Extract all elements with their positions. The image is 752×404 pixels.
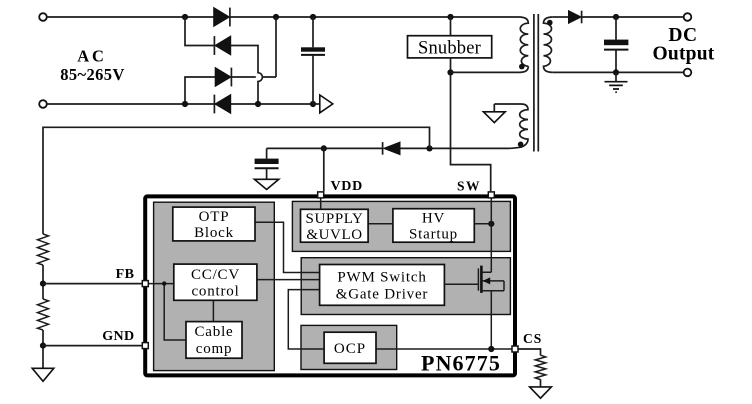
svg-text:85~265V: 85~265V [60,65,125,84]
svg-text:AC: AC [77,47,106,66]
pin SW [488,192,494,198]
resistor R1 [38,234,49,265]
wire vdd pin to supply [320,198,322,209]
svg-text:FB: FB [116,267,135,282]
block left gray [154,202,275,370]
wire bridge left upper vertical [185,17,214,46]
wire FB [43,283,142,285]
chip PN6775 outline [145,196,515,375]
junction primary bottom [447,69,453,75]
junction top bulk cap [310,14,316,20]
arrow DC- bus marker [313,95,333,113]
polarity dot secondary [547,20,553,26]
wire FB branch to cable comp [164,284,186,340]
wire primary bottom [451,66,529,72]
box PWM Switch Gate Driver [320,265,445,306]
pin CS [512,346,518,352]
diode D4 bridge bottom [214,95,230,114]
diode D2 bridge [214,36,230,55]
svg-text:PWM Switch: PWM Switch [337,270,426,286]
transistor Q1 power mosfet [444,266,504,293]
terminal AC line 1 [39,13,47,21]
terminal AC line 2 [39,100,47,108]
transformer primary winding [519,17,528,66]
wire R1 to R2 [42,265,44,299]
svg-text:Output: Output [653,44,715,65]
box Cable comp [186,322,242,359]
svg-text:VDD: VDD [331,179,363,194]
capacitor C3 vdd [255,148,279,179]
junction output cap bottom [613,69,619,75]
junction hv sw [488,221,494,227]
transformer secondary winding [544,17,553,72]
svg-text:HV: HV [422,211,445,227]
junction output cap top [613,14,619,20]
svg-text:OTP: OTP [199,209,230,225]
svg-text:SW: SW [457,179,481,194]
terminal DC out plus [684,13,692,21]
wire secondary bottom / output minus [553,71,685,73]
svg-text:comp: comp [196,341,233,357]
diode D1 bridge top [214,8,230,27]
junction top snubber [447,14,453,20]
diode D6 output [569,11,582,24]
snubber box [408,36,492,58]
wire PWM to OCP [288,290,324,349]
junction bottom bulk cap [310,101,316,107]
wire R2 to ground [42,330,44,368]
polarity dot aux [518,142,524,148]
wire aux bottom [401,147,509,149]
arrow primary ground marker aux [483,104,505,123]
diode D5 vdd [383,142,400,155]
transformer core [534,14,538,152]
junction GND [40,343,46,349]
diode D3 bridge [215,68,231,87]
junction vdd pin [321,145,327,151]
ground cs [530,387,552,398]
junction top D3 feed [273,14,279,20]
wire R3 to ground [540,379,542,387]
earth ground output [605,72,628,92]
box OCP [324,332,376,363]
box CC/CV control [174,264,257,300]
wire GND [43,345,142,347]
wire hv to sw line [474,223,491,225]
wire feedback sense [43,127,430,234]
wire vdd pin drop [323,148,325,191]
svg-text:PN6775: PN6775 [421,351,501,376]
wire D2 to DC- with hop over D3 wire [231,46,263,105]
wire AC bottom rail [47,103,313,105]
junction FB [40,281,46,287]
svg-text:&UVLO: &UVLO [306,227,362,243]
block middle gray [301,258,510,315]
wire D3 to top rail [231,17,276,77]
junction aux / divider [426,145,432,151]
wire OTP to PWM [255,222,320,272]
wire snubber bottom to SW [451,58,491,191]
svg-text:Startup: Startup [409,227,458,243]
pin FB [142,281,148,287]
pin GND [142,343,148,349]
block top gray [292,201,510,251]
wire secondary top to output diode [553,16,569,18]
svg-text:SUPPLY: SUPPLY [306,211,364,227]
junction top-left [182,14,188,20]
wire OCP to CS pin [376,348,512,350]
svg-text:control: control [191,284,239,300]
wire snubber top [450,17,452,36]
svg-text:OCP: OCP [334,341,366,357]
svg-text:GND: GND [102,329,134,344]
wire output plus [582,16,685,18]
capacitor C1 bulk [301,17,325,104]
ground divider [32,368,54,381]
wire supply to hv [368,223,393,225]
box HV Startup [393,209,474,243]
box SUPPLY UVLO [301,209,369,242]
polarity dot primary [519,64,525,70]
transformer aux winding [494,104,528,148]
svg-text:Snubber: Snubber [418,39,481,59]
terminal DC out minus [684,69,692,77]
junction FB branch [162,281,166,285]
wire CS external [519,349,541,355]
wire bridge left lower vertical [185,77,215,104]
svg-text:&Gate Driver: &Gate Driver [336,287,428,303]
junction bottom-left [182,101,188,107]
wire sw pin to mosfet drain [490,198,492,272]
svg-text:CS: CS [523,331,542,346]
capacitor C2 output [604,17,628,73]
wire top rail to transformer [230,16,519,18]
svg-text:Block: Block [194,225,234,241]
wire AC top rail [47,16,214,18]
junction source CS [488,346,494,352]
wire CCCV to cable comp [212,300,214,321]
pin VDD [318,192,324,198]
ground vdd cap [254,179,278,189]
resistor R2 [38,299,49,330]
box OTP Block [173,207,255,241]
svg-text:CC/CV: CC/CV [191,267,240,283]
wire PWM gate [444,283,478,285]
svg-text:Cable: Cable [195,324,234,340]
block bottom gray [301,325,397,369]
wire mosfet source down to CS rail [490,291,492,349]
resistor R3 cs [535,355,545,379]
wire FB pin to CCCV [146,283,174,285]
junction bottom D2 [255,101,261,107]
wire D5 to vdd cap [267,147,383,149]
wire CCCV to PWM [257,279,320,281]
